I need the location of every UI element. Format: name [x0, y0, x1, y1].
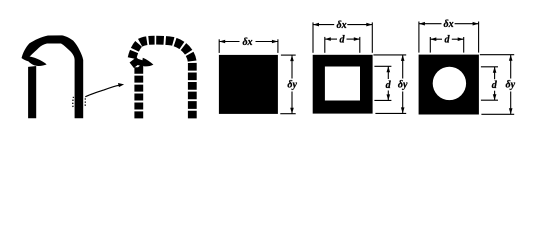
square 2 dy bottom arrowhead — [401, 107, 405, 113]
svg-text:d: d — [492, 80, 498, 91]
svg-text:δx: δx — [337, 20, 347, 31]
arrow dotted tail segment left of glyph leg — [72, 97, 75, 107]
square 3: sampling window with circular hole — [419, 55, 479, 115]
square 3 top d right arrowhead — [458, 37, 464, 41]
segmented glyph: dashed stroke, left leg + beak + left arch — [132, 40, 155, 118]
square 1 dy bottom arrowhead — [290, 108, 294, 114]
square 1 dy dimension lines — [280, 55, 295, 114]
square 3 right d top arrowhead — [493, 67, 497, 73]
square 3 right d bottom arrowhead — [493, 94, 497, 100]
segmented glyph: beak tail flick block — [142, 58, 154, 67]
square 3 dx right arrowhead — [473, 22, 479, 26]
arrow curved shaft — [85, 85, 119, 97]
svg-text:δy: δy — [506, 80, 516, 91]
square 3 dy top arrowhead — [509, 55, 513, 61]
svg-text:δx: δx — [444, 19, 454, 30]
segmented glyph: dashed stroke, right arch + right leg — [156, 40, 192, 118]
square 1 dy top arrowhead — [290, 55, 294, 61]
square 2 top d right arrowhead — [354, 37, 360, 41]
square 2 right d bottom arrowhead — [387, 94, 391, 100]
square 1 dx dimension lines — [219, 39, 278, 53]
square 3 right d dimension lines — [481, 67, 498, 100]
square 2: sampling window with square hole — [313, 55, 373, 114]
svg-text:δx: δx — [242, 37, 252, 48]
solid Thai glyph ko kai: main stroke (beak, arch, right leg) — [22, 35, 84, 118]
svg-text:δy: δy — [287, 80, 297, 91]
svg-text:d: d — [340, 34, 346, 45]
svg-text:d: d — [445, 35, 451, 46]
square 2 dy dimension lines — [373, 55, 406, 114]
square 2 outer dx dimension lines — [313, 22, 372, 52]
segmented glyph: beak diagonal block — [136, 59, 144, 67]
square 2 inner square hole — [325, 67, 360, 101]
square 2 dx right arrowhead — [366, 23, 372, 27]
square 3 dx left arrowhead — [419, 22, 425, 26]
svg-text:δy: δy — [398, 80, 408, 91]
square 2 top d left arrowhead — [325, 37, 331, 41]
solid Thai glyph ko kai: left leg — [28, 66, 36, 118]
square 3 top d dimension lines — [430, 37, 463, 53]
square 1: solid sampling window — [219, 55, 278, 114]
square 3 outer dx dimension lines — [419, 22, 479, 53]
svg-text:d: d — [386, 80, 392, 91]
square 2 right d top arrowhead — [387, 66, 391, 72]
square 3 circular hole — [433, 67, 466, 100]
square 2 right d dimension lines — [374, 66, 391, 100]
square 1 dx left arrowhead — [219, 40, 225, 44]
arrow head — [118, 83, 124, 87]
square 3 top d left arrowhead — [430, 37, 436, 41]
square 2 dy top arrowhead — [401, 55, 405, 61]
square 3 dy bottom arrowhead — [509, 108, 513, 114]
square 2 top d dimension lines — [325, 37, 360, 53]
square 2 dx left arrowhead — [313, 23, 319, 27]
arrow dotted tail segment right of glyph leg — [84, 98, 86, 106]
square 1 dx right arrowhead — [272, 40, 278, 44]
square 3 dy dimension lines — [480, 55, 514, 115]
